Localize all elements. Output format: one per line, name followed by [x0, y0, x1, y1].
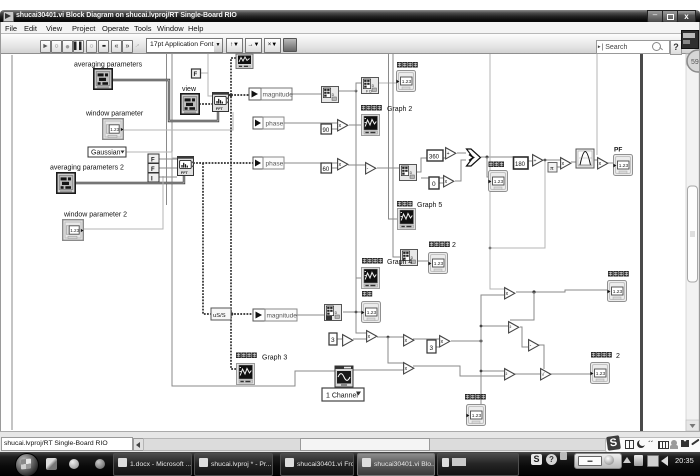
triangle after 3 [343, 335, 353, 346]
wire: dynamic data down to uS/S [203, 163, 211, 314]
sqrt triangle [541, 369, 551, 380]
wire: FFT2 out to phase unbundle [193, 162, 253, 164]
wire: averaging parameters 2 to FFT2 [75, 176, 184, 183]
svg-text:1 Channel: 1 Channel [326, 393, 358, 400]
wire: Gaussian ring to FFT2 [126, 152, 177, 158]
toolbar [0, 34, 700, 54]
square triangle [509, 322, 519, 333]
block: index array phase diff [400, 165, 417, 181]
waveform graph terminal top (small) [236, 54, 253, 69]
svg-text:magnitude: magnitude [263, 92, 294, 99]
indicator: PF [613, 147, 632, 176]
cluster control: view [181, 86, 199, 114]
wire: phase I chain [284, 122, 337, 124]
dropdown: 1 Channel [322, 388, 364, 401]
svg-text:window parameter: window parameter [85, 111, 144, 118]
wire: reactive chain [520, 327, 528, 347]
bottom bar of LabVIEW window [0, 431, 700, 452]
block: spectral buffer [322, 87, 339, 103]
boolean array constant [148, 154, 159, 183]
multiply triangle amplitude [404, 335, 414, 346]
wire: F constant jog into FFT1 [199, 72, 208, 74]
svg-text:2: 2 [616, 353, 620, 360]
subtract triangle phase difference [366, 163, 376, 174]
search box [596, 40, 670, 54]
wire: magnitude V out to tone block [297, 314, 324, 316]
numeric control: window parameter 2 [63, 212, 127, 241]
express VI: FFT 2 [178, 157, 194, 176]
wire: dynamic data vertical x231 graph/Graph3 [231, 58, 236, 369]
wire: window parameter to FFT1 [124, 112, 233, 130]
wire: long vertical bus x166 [166, 54, 168, 205]
cluster control: averaging parameters [74, 62, 143, 90]
ring constant: Gaussian [88, 147, 126, 157]
svg-text:PF: PF [614, 147, 622, 154]
multiply triangle rms [440, 336, 450, 347]
svg-text:59: 59 [691, 59, 699, 66]
wire: FFT1 dynamic data out [228, 94, 249, 96]
multiply: apparent power [404, 363, 414, 374]
uS/S unit box [211, 308, 231, 320]
svg-text:3: 3 [430, 345, 434, 352]
numeric constant 3 [329, 333, 337, 345]
multiply triangle (voltage phase) [338, 159, 348, 170]
graph: dianya fuzhi Graph 3 [236, 353, 287, 385]
multiply triangle [444, 176, 454, 187]
wire: active power out [516, 290, 607, 292]
Sogou input bar [605, 437, 700, 453]
wire: select out to phase-diff indicator and 180 chain [481, 156, 514, 158]
wire: view cluster to FFT1 [199, 103, 212, 105]
svg-text:averaging parameters: averaging parameters [74, 62, 143, 69]
svg-text:uS/S: uS/S [213, 313, 226, 319]
wire: radians tap down to active-power multiply [490, 160, 545, 248]
svg-text:F: F [151, 167, 155, 173]
pi constant [548, 163, 557, 173]
window side borders [0, 22, 1, 451]
unbundle: magnitude (voltage) [253, 309, 297, 321]
svg-text:÷: ÷ [534, 158, 537, 164]
wire: boolean array stubs [159, 159, 177, 177]
wire: window parameter 2 to FFT2 [82, 176, 163, 229]
wire: structure border right [640, 54, 643, 431]
wire: sine generator out to reactive multiply [353, 369, 403, 371]
unbundle: phase (voltage) [253, 157, 284, 169]
svg-text:180: 180 [515, 162, 526, 168]
output triangle to PF [598, 158, 608, 169]
svg-text:F D: F D [366, 90, 372, 94]
svg-text:60: 60 [323, 167, 330, 173]
svg-text:90: 90 [323, 128, 330, 134]
wire: to dianya chuxiang 2 [415, 260, 428, 262]
indicator: yougong gonglv (active power) [607, 271, 628, 302]
svg-text:Graph 5: Graph 5 [417, 202, 442, 209]
svg-text:0: 0 [432, 181, 436, 188]
svg-text:phase: phase [266, 121, 284, 128]
VI icon top right [681, 30, 699, 49]
multiply: active power [505, 288, 515, 299]
wire: verticals x388 x393 [389, 54, 398, 219]
wire: amplitude row [337, 338, 342, 340]
wire: long vertical x490 to active power multiply [490, 54, 504, 289]
numeric constant 60 [321, 163, 332, 173]
svg-text:phase: phase [266, 161, 284, 168]
block: convert near graph4 [401, 250, 418, 266]
wire: vertical x597 [596, 54, 598, 155]
svg-text:2: 2 [452, 242, 456, 249]
svg-text:√: √ [542, 371, 545, 378]
wire: phase V chain [284, 162, 338, 164]
svg-text:3: 3 [331, 337, 335, 344]
numeric constant 360 [427, 150, 443, 161]
svg-text:F: F [194, 72, 198, 78]
numeric constant 90 [321, 124, 332, 134]
window buttons [647, 10, 663, 23]
wire: vertical x172 to bottom rail [172, 54, 335, 386]
wire: tone block out to freq indicator [343, 311, 361, 313]
unbundle: magnitude (current) [249, 88, 293, 100]
wire: magnitude I chain [292, 93, 321, 95]
wire: V amplitude to power multiplies [451, 340, 481, 342]
wire: index block out to add/mult pair [417, 158, 445, 172]
indicator: dianliu chuxiang (current initial phase) [396, 62, 417, 92]
indicator: wugong gonglv 2 (reactive power) [590, 352, 620, 384]
svg-text:window parameter 2: window parameter 2 [63, 212, 127, 219]
junction FFT1 out [229, 93, 232, 96]
numeric constant 3 (second) [427, 340, 436, 353]
indicator: pinlv (frequency) [361, 291, 380, 323]
round desktop gadget overlay [687, 50, 700, 72]
multiply triangle [561, 158, 571, 169]
express VI: FFT 1 [213, 93, 229, 112]
cluster control: averaging parameters 2 [50, 165, 124, 194]
svg-text:Gaussian: Gaussian [91, 150, 121, 157]
svg-text:averaging parameters 2: averaging parameters 2 [50, 165, 124, 172]
numeric constant 180 [514, 157, 529, 169]
indicator: dianya chuxiang 2 [428, 242, 456, 274]
wire: add/mult outs to select [457, 152, 466, 154]
indicator: xiangweicha (phase difference) [488, 162, 507, 192]
cosine function block [576, 149, 594, 168]
tray [531, 454, 542, 465]
svg-text:360: 360 [429, 155, 440, 161]
indicator: shizai gonglv (apparent power) [465, 394, 486, 426]
wire: averaging parameters cluster feed [112, 80, 218, 121]
square triangle 2 [505, 369, 515, 380]
menu bar [0, 22, 700, 34]
express VI: basic function generator [335, 366, 353, 387]
wire: vertical x356 magnitude split down to Graph 4 and amplitude [356, 83, 366, 333]
power triangle [367, 331, 377, 342]
graph: xiangweicha Graph 5 [397, 201, 442, 230]
graph: dianya xiangpin Graph 4 [362, 258, 413, 289]
numeric constant 0 [429, 177, 439, 189]
vertical scrollbar [686, 54, 699, 431]
wire: left loop feed down and to sine generator [11, 55, 13, 430]
graph: dianliu xiangpin Graph 2 [361, 105, 412, 136]
svg-text:F: F [151, 158, 155, 164]
svg-text:Graph 4: Graph 4 [387, 259, 412, 266]
block: convert to dynamic data [362, 78, 379, 94]
unbundle: phase (current) [253, 117, 284, 129]
window title bar [0, 10, 700, 22]
add triangle [446, 148, 456, 159]
svg-text:+: + [447, 151, 450, 157]
multiply triangle (current phase) [338, 120, 348, 131]
svg-text:π: π [550, 166, 554, 172]
svg-text:magnitude: magnitude [267, 313, 298, 320]
numeric control: window parameter [85, 111, 144, 140]
taskbar [0, 452, 700, 476]
wire: uS/S out to magnitude unbundle [231, 313, 253, 315]
block: tone measurement [325, 305, 342, 321]
boolean constant F [192, 69, 201, 78]
svg-text:view: view [182, 86, 197, 93]
subtract triangle reactive [529, 340, 539, 351]
svg-text:Graph 2: Graph 2 [387, 106, 412, 113]
divide triangle [533, 155, 543, 166]
select node [467, 149, 481, 166]
svg-text:Graph 3: Graph 3 [262, 355, 287, 362]
